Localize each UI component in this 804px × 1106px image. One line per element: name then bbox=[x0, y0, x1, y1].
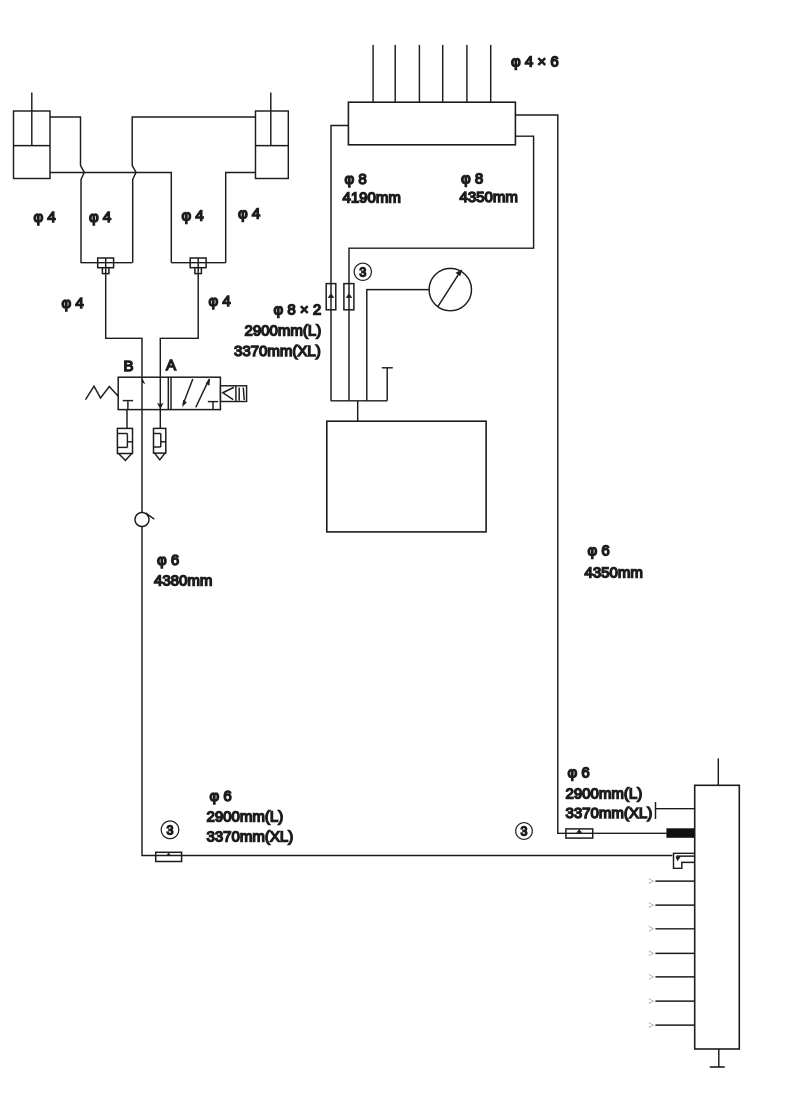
svg-text:φ 4: φ 4 bbox=[62, 295, 84, 312]
wire bus down to tank bbox=[357, 401, 359, 421]
wire CYL1 top port down to tee T1 (with crossover jog) bbox=[50, 117, 84, 263]
right block bottom stub with end tick bbox=[710, 1049, 725, 1067]
wire T2 to valve port A and through valve to muffler M2 bbox=[160, 274, 198, 429]
svg-text:4350mm: 4350mm bbox=[585, 565, 643, 582]
label port A bbox=[166, 357, 176, 374]
black port bar into right block bbox=[666, 828, 694, 838]
svg-text:φ 6: φ 6 bbox=[157, 552, 179, 569]
wire into tee T1 (horizontal run) bbox=[81, 262, 133, 264]
svg-text:4350mm: 4350mm bbox=[460, 189, 518, 206]
labels phi8x2 2900mm(L) 3370mm(XL) bbox=[234, 302, 321, 361]
manifold outlet stub lines x6 bbox=[373, 45, 491, 102]
labels phi4 on tee-to-valve lines (row 2) bbox=[62, 293, 231, 312]
svg-text:φ 4: φ 4 bbox=[238, 206, 260, 223]
inline fitting F2 on bottom line bbox=[156, 852, 182, 861]
inline fitting F3 bbox=[566, 829, 593, 838]
svg-text:φ 4: φ 4 bbox=[34, 209, 56, 226]
labels phi4 on cylinder lines (row 1) bbox=[34, 206, 261, 227]
cylinder CYL2 (top-right air cylinder) bbox=[256, 93, 289, 179]
label phi6 4350mm (right side) bbox=[585, 543, 643, 582]
union fitting U1 bbox=[326, 284, 336, 310]
tank / compressor unit bbox=[327, 421, 486, 532]
label port B bbox=[124, 358, 134, 375]
right block (spray bar / cylinder block) bbox=[695, 785, 740, 1049]
svg-text:φ 4: φ 4 bbox=[182, 208, 204, 225]
svg-text:3370mm(XL): 3370mm(XL) bbox=[234, 343, 321, 360]
svg-text:3: 3 bbox=[359, 265, 366, 279]
svg-text:3: 3 bbox=[167, 823, 174, 837]
right block top stub bbox=[717, 758, 719, 785]
port wire with end tick into right block bbox=[656, 802, 695, 819]
wire check valve down and across bottom to coupling bbox=[142, 527, 672, 856]
label circled 3 near fitting F3 bbox=[516, 823, 533, 840]
muffler M2 (exhaust silencer, right) bbox=[154, 428, 166, 459]
faint chevrons at comb line ends bbox=[649, 879, 653, 1028]
svg-text:3370mm(XL): 3370mm(XL) bbox=[566, 805, 653, 822]
label circled 3 near unions bbox=[354, 263, 371, 280]
svg-text:φ 4: φ 4 bbox=[89, 209, 111, 226]
svg-text:φ 8 × 2: φ 8 × 2 bbox=[274, 302, 322, 319]
wire CYL2 bottom port to tee T2 bbox=[226, 173, 256, 263]
labels phi8 4190mm bbox=[343, 171, 401, 207]
pressure gauge G1 bbox=[429, 268, 471, 310]
label phi4 x 6 bbox=[511, 53, 559, 70]
svg-text:φ 8: φ 8 bbox=[345, 171, 367, 188]
solenoid actuator on valve right side bbox=[220, 386, 246, 402]
wire T1 to valve port B and through valve down to check valve bbox=[106, 274, 142, 513]
svg-text:2900mm(L): 2900mm(L) bbox=[207, 809, 284, 826]
manifold header block (top middle) bbox=[348, 102, 515, 145]
svg-text:2900mm(L): 2900mm(L) bbox=[566, 786, 643, 803]
tee fitting T2 bbox=[190, 258, 206, 274]
svg-text:3370mm(XL): 3370mm(XL) bbox=[207, 829, 294, 846]
wire manifold outer right port down right side to block port (with fitting F3) bbox=[515, 115, 666, 833]
nozzle comb lines on right block bbox=[655, 881, 694, 1025]
wire manifold left port down through union U1 to bus bbox=[331, 126, 348, 401]
union fitting U2 bbox=[344, 284, 354, 310]
drain plug stub on bus bbox=[382, 368, 393, 401]
label circled 3 near fitting F2 bbox=[161, 821, 179, 839]
stepped quick coupling into right block bbox=[674, 853, 695, 868]
svg-text:B: B bbox=[124, 358, 134, 375]
svg-text:φ 4: φ 4 bbox=[209, 293, 231, 310]
labels phi6 2900mm(L) 3370mm(XL) right-bottom bbox=[566, 765, 653, 823]
wire manifold inner right port loop down through union U2 to bus bbox=[349, 136, 534, 401]
wire into tee T2 (horizontal run) bbox=[171, 262, 225, 264]
label phi6 4380mm (main supply line) bbox=[154, 552, 212, 590]
wire gauge to bus bbox=[367, 290, 429, 401]
svg-text:φ 6: φ 6 bbox=[568, 765, 590, 782]
valve V1 left-box flow marks (arrow up on B line, blocked port tee, arrow down on A line) bbox=[123, 378, 164, 410]
labels phi6 2900mm(L) 3370mm(XL) bottom-left bbox=[207, 788, 294, 846]
valve V1 solenoid directional valve body bbox=[118, 377, 220, 409]
check valve CV1 bbox=[135, 513, 154, 527]
svg-text:φ 6: φ 6 bbox=[588, 543, 610, 560]
wire CYL1 bottom port to tee T2 bbox=[50, 173, 171, 263]
valve V1 right-box flow arrows and blocked port tee bbox=[182, 378, 218, 409]
bus line above tank bbox=[331, 400, 388, 402]
svg-text:4380mm: 4380mm bbox=[154, 573, 212, 590]
labels phi8 4350mm bbox=[460, 171, 518, 207]
svg-text:3: 3 bbox=[521, 825, 528, 839]
muffler M1 (exhaust silencer, left) bbox=[117, 410, 132, 461]
svg-text:4190mm: 4190mm bbox=[343, 190, 401, 207]
spring return on valve left side bbox=[86, 386, 119, 399]
cylinder CYL1 (top-left air cylinder) bbox=[14, 93, 51, 179]
wire CYL2 top port across and down to tee T1 (with crossover jog) bbox=[132, 117, 255, 263]
svg-text:φ 8: φ 8 bbox=[461, 171, 483, 188]
svg-text:φ 6: φ 6 bbox=[210, 788, 232, 805]
svg-text:2900mm(L): 2900mm(L) bbox=[245, 323, 322, 340]
svg-text:A: A bbox=[166, 357, 176, 374]
svg-text:φ 4 × 6: φ 4 × 6 bbox=[511, 53, 559, 70]
tee fitting T1 bbox=[98, 258, 114, 274]
